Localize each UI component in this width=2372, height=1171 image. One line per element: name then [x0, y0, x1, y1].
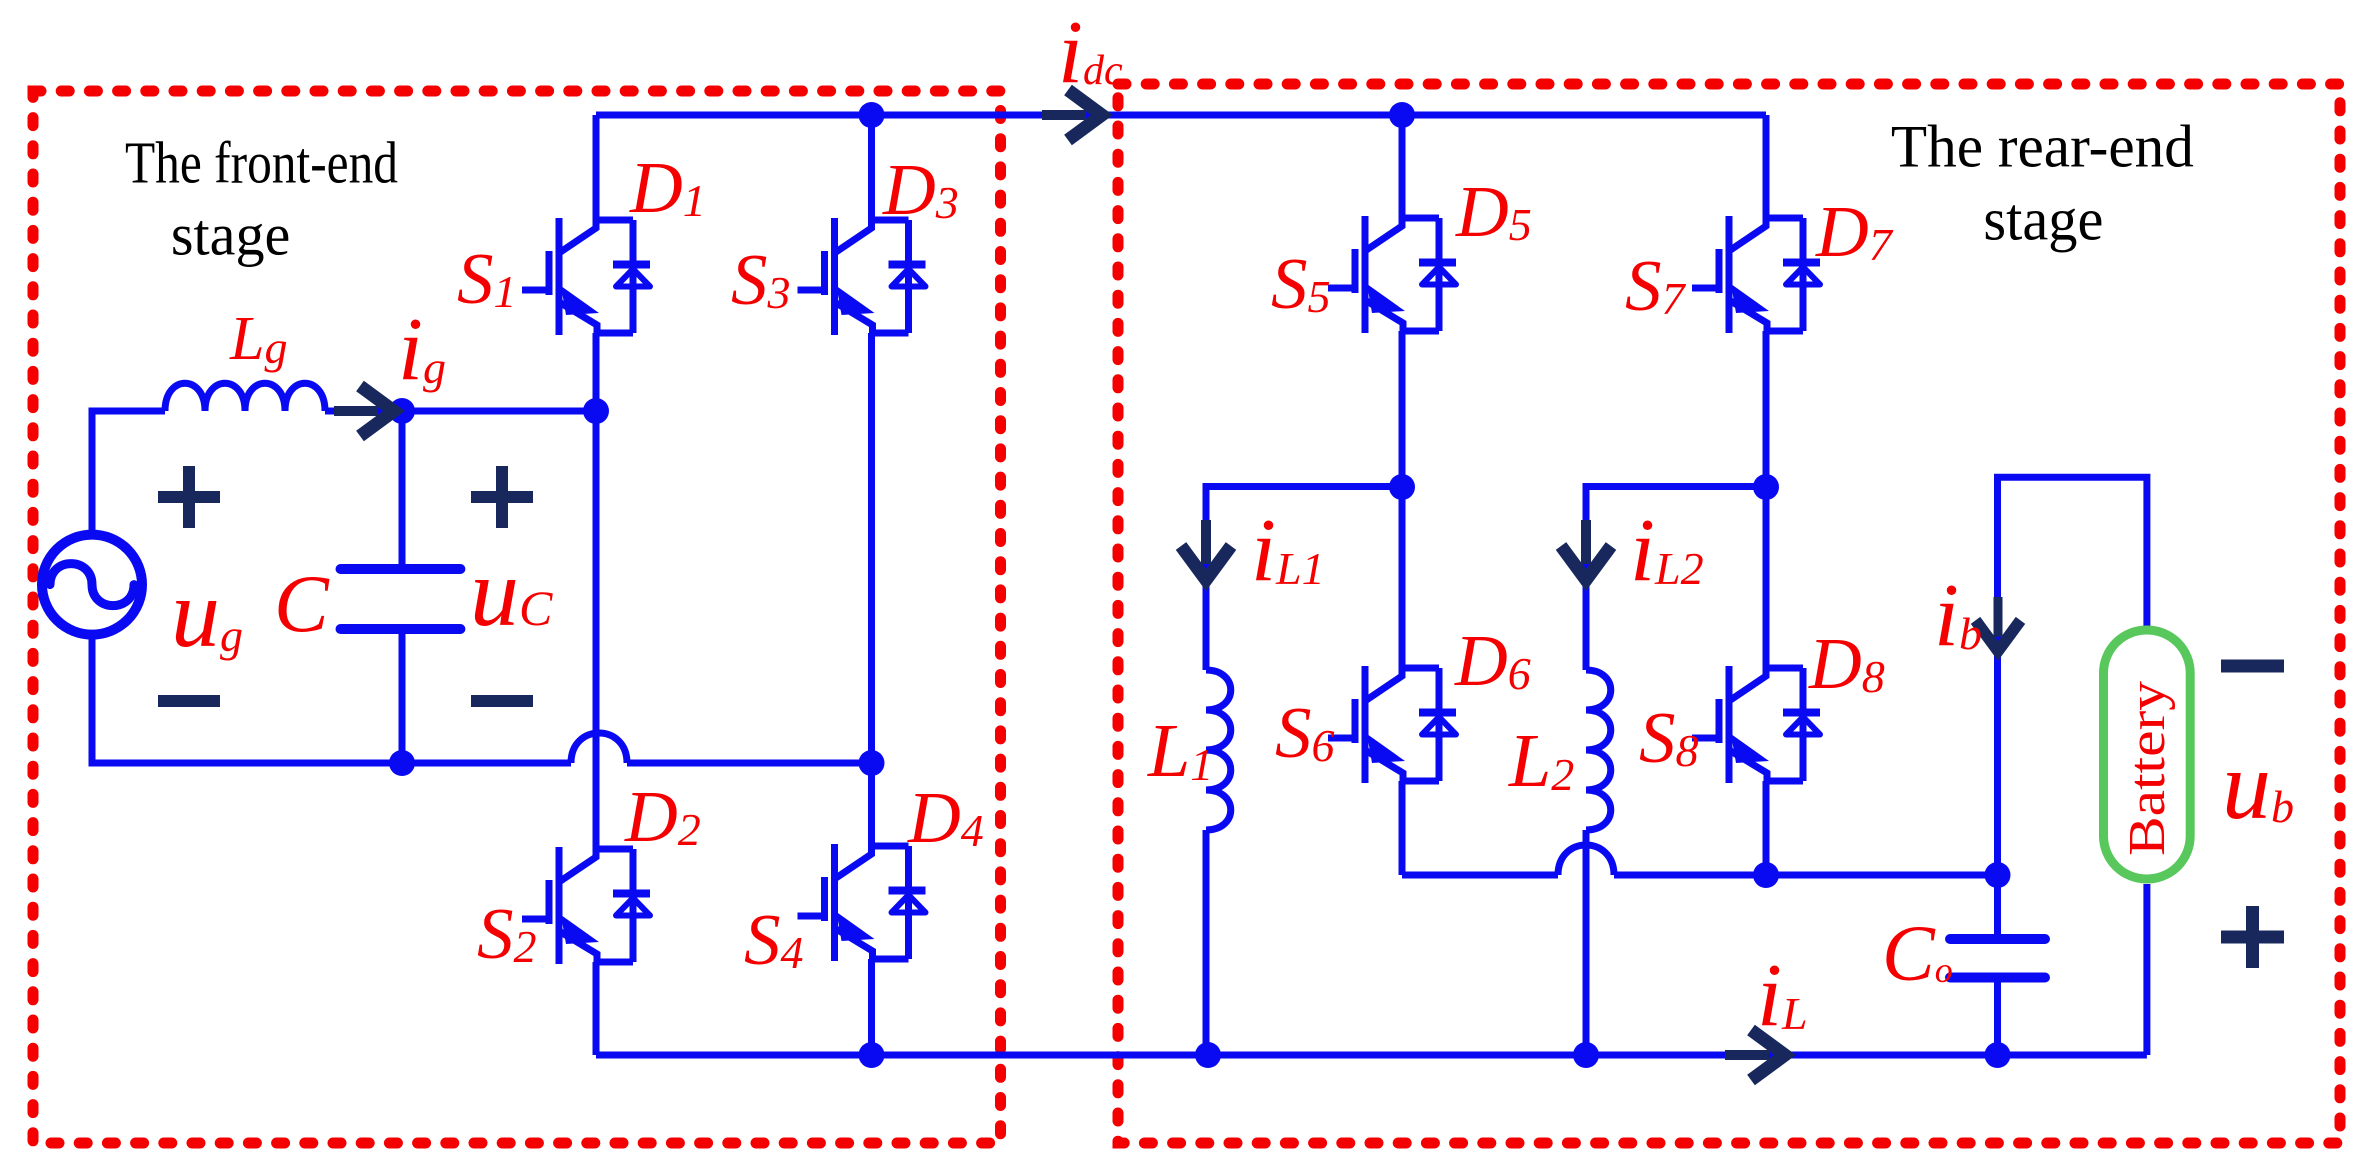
inductor L1	[1206, 670, 1231, 830]
transistor S5	[1328, 215, 1456, 333]
wire: S3 emitter to right leg midpoint to S4	[868, 333, 875, 846]
transistor S4	[798, 843, 926, 961]
transistor S3	[798, 217, 926, 335]
wire: L1 branch top	[1206, 487, 1402, 671]
junction: node ig / capacitor C top	[389, 398, 415, 424]
junction: node ig at left leg	[583, 398, 609, 424]
wire: S2 emitter to bottom rail	[593, 962, 600, 1055]
minus sign ub	[2221, 660, 2284, 673]
wire: S4 emitter to bottom rail	[868, 959, 875, 1055]
wire: S3 collector lead	[868, 115, 875, 220]
inductor Lg	[165, 383, 325, 411]
junction: top rail at S5 leg	[1389, 102, 1415, 128]
wire: L1 bottom lead	[1203, 830, 1210, 1055]
wire: Co bottom lead	[1994, 981, 2001, 1055]
wire: S8 emitter down to mid rail	[1763, 781, 1770, 875]
wire: S7/S8 node to S8 collector	[1763, 487, 1770, 668]
battery	[2104, 630, 2191, 879]
wire: top dc rail	[596, 112, 1766, 119]
transistor S1	[522, 217, 650, 335]
current arrow ig	[334, 386, 394, 436]
wire hop: mid rail over L2 branch	[1558, 845, 1614, 875]
junction: top rail at S3 leg	[859, 102, 885, 128]
capacitor C	[341, 569, 461, 629]
svg-text:stage: stage	[171, 202, 291, 268]
junction: bottom rail at S4 leg	[859, 1042, 885, 1068]
wire: S1 collector lead	[593, 115, 600, 220]
current arrow iL1	[1181, 520, 1231, 580]
wire: L2 bottom lead through hop to bottom rail	[1583, 830, 1590, 1055]
wire: ac source bottom lead and bottom wire	[92, 634, 571, 763]
junction: bottom rail at L1	[1195, 1042, 1221, 1068]
junction: bottom rail at Co	[1985, 1042, 2011, 1068]
wire: L2 branch top	[1586, 487, 1766, 671]
wire: battery left loop (ib branch)	[1998, 477, 2147, 875]
wire: rear mid rail left part	[1402, 872, 1558, 879]
wire: S7 emitter to mid node	[1763, 331, 1770, 487]
wire: capacitor C top lead	[399, 411, 406, 565]
capacitor Co	[1950, 939, 2045, 978]
junction: S7/S8 midpoint node	[1753, 474, 1779, 500]
wire: S5/S6 node to S6 collector	[1399, 487, 1406, 668]
transistor S2	[522, 846, 650, 964]
svg-text:The front-end: The front-end	[125, 129, 398, 195]
junction: S5/S6 midpoint node	[1389, 474, 1415, 500]
rear-end stage dashed box	[1118, 84, 2340, 1143]
svg-text:stage: stage	[1983, 187, 2103, 253]
junction: mid rail at S8 leg	[1753, 862, 1779, 888]
wire: S1 emitter to node ig, down through hop to S2	[593, 333, 600, 849]
wire: Lg to node ig	[325, 408, 596, 415]
junction: mid rail at Co / battery branch	[1985, 862, 2011, 888]
wire: capacitor C bottom lead	[399, 633, 406, 763]
transistor S7	[1692, 215, 1820, 333]
transistor S8	[1692, 665, 1820, 783]
minus sign ug	[158, 695, 220, 707]
current arrow iL2	[1561, 520, 1611, 580]
wire: ac source top lead and corner	[92, 411, 165, 536]
wire: rear mid rail right part	[1614, 872, 1998, 879]
junction: right leg midpoint node	[859, 750, 885, 776]
front-end stage dashed box	[33, 91, 1001, 1143]
wire: S5 emitter to mid node	[1399, 331, 1406, 487]
current arrow ib	[1976, 597, 2021, 651]
transistor S6	[1328, 665, 1456, 783]
wire: bottom wire to right leg midpoint	[627, 760, 872, 767]
current arrow iL	[1725, 1030, 1785, 1080]
wire: S6 emitter down to mid rail corner	[1399, 781, 1406, 875]
current arrow idc	[1042, 90, 1102, 140]
wire: Co top lead	[1994, 875, 2001, 935]
plus sign uC	[471, 466, 533, 528]
wire: S5 collector lead	[1399, 115, 1406, 218]
inductor L2	[1586, 670, 1611, 830]
wire: battery bottom lead	[2143, 884, 2150, 1055]
svg-text:Battery: Battery	[2119, 681, 2176, 856]
minus sign uC	[471, 695, 533, 707]
plus sign ug	[158, 466, 220, 528]
junction: bottom rail at L2	[1573, 1042, 1599, 1068]
wire hop: bottom wire over left leg	[571, 733, 627, 763]
svg-text:C: C	[274, 558, 330, 649]
svg-text:The rear-end: The rear-end	[1891, 114, 2194, 180]
ac source ug	[42, 535, 142, 635]
junction: capacitor C bottom node	[389, 750, 415, 776]
wire: S7 collector lead from top rail	[1763, 115, 1770, 218]
wire: bottom rail	[596, 1052, 2147, 1059]
plus sign ub	[2221, 906, 2284, 968]
